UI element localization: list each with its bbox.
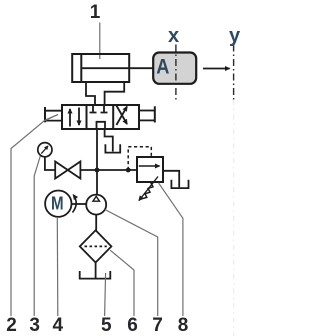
valve position divider right [112, 105, 114, 129]
valve left actuator bar [44, 107, 46, 122]
drain tank under valve [105, 144, 120, 152]
directional valve 2 body [62, 105, 139, 129]
leader line 3 to gauge [34, 156, 40, 316]
cylinder piston rod [81, 67, 153, 69]
svg-text:A: A [156, 55, 169, 78]
filter 6 diamond [80, 230, 112, 262]
wire filter to tank [95, 263, 97, 279]
wire pump to filter [95, 215, 97, 231]
valve left actuator top link [45, 110, 62, 112]
svg-text:7: 7 [152, 315, 163, 336]
gauge needle [41, 146, 48, 154]
leader line 7 to pump [105, 210, 158, 317]
relief valve spring arrow [139, 177, 158, 201]
valve right actuator bottom link [139, 119, 155, 121]
svg-text:5: 5 [101, 315, 112, 336]
relief drain tank [171, 180, 188, 188]
svg-text:2: 2 [6, 315, 17, 336]
valve position divider left [86, 105, 88, 129]
gauge stem wire [45, 157, 55, 170]
valve left actuator bottom link [45, 120, 62, 122]
leader line 4 to motor [56, 217, 59, 316]
relief valve spring zigzag [142, 182, 156, 199]
shut-off valve right triangle [68, 162, 81, 179]
valve centre P-T bypass [97, 122, 106, 129]
shut-off valve left triangle [55, 162, 68, 179]
valve actuator slash [44, 115, 58, 121]
cylinder 1 body [72, 54, 129, 82]
wire cylinder left port to valve port A [86, 82, 95, 105]
svg-text:4: 4 [53, 315, 64, 336]
wire cylinder right port to valve port B [105, 82, 125, 105]
relief valve outlet wire [163, 171, 179, 188]
valve right position cross arrow 1 [116, 107, 127, 126]
motor shaft [72, 203, 87, 205]
rotation arrow [73, 195, 77, 213]
relief valve pilot dashed line [128, 147, 151, 170]
valve right actuator top link [139, 110, 155, 112]
svg-text:6: 6 [127, 315, 138, 336]
filter element dashed [85, 245, 107, 247]
svg-text:M: M [51, 194, 64, 214]
junction pilot tap [126, 168, 131, 173]
junction main line [95, 168, 100, 173]
svg-text:x: x [168, 25, 179, 47]
pump 7 circle [86, 195, 106, 215]
motor 4 circle [45, 191, 71, 217]
svg-text:3: 3 [29, 315, 40, 336]
leader line 8 to relief valve [158, 183, 183, 316]
tank 5 [80, 271, 111, 279]
leader line 2 to valve actuator [11, 115, 58, 317]
valve left position down arrow [78, 108, 80, 126]
pressure gauge 3 [38, 143, 52, 157]
relief valve flow arrow [139, 165, 160, 167]
cylinder piston [80, 54, 82, 82]
relief valve 8 body [137, 157, 163, 182]
valve right position cross arrow 2 [116, 106, 127, 125]
faint continuation of y line [233, 100, 235, 336]
wire valve T port to drain tank [105, 129, 113, 152]
node y dash-dot line [233, 45, 235, 101]
wire valve P port to pump [96, 129, 98, 195]
svg-text:y: y [229, 25, 241, 47]
valve right actuator bar [154, 106, 156, 122]
leader line 5 to tank [105, 273, 106, 316]
wire shut-off valve to main line [80, 169, 137, 171]
node x dash-dot centerline [175, 45, 177, 101]
valve left position up arrow [69, 109, 71, 127]
leader line 6 to filter [110, 250, 134, 316]
svg-text:8: 8 [178, 315, 189, 336]
valve centre blocked port B [101, 105, 108, 113]
pump triangle [93, 196, 100, 201]
valve centre blocked port A [90, 105, 97, 113]
load box A [153, 53, 196, 84]
motion arrow to y [203, 68, 230, 70]
svg-text:1: 1 [90, 2, 101, 23]
leader line to cylinder 1 [99, 23, 101, 60]
